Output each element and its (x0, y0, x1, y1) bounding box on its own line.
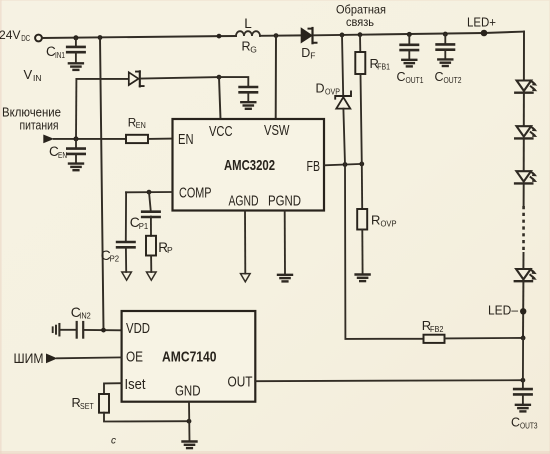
wire D4 to LED- node (522, 282, 524, 339)
diode D (schottky, EN to VCC) (129, 71, 144, 86)
junction rail/COUT2 (443, 32, 448, 37)
label 24VDC (0, 28, 30, 43)
wire top rail from terminal to inductor L (42, 36, 236, 38)
svg-text:EN: EN (58, 150, 67, 160)
capacitor CIN1 (67, 38, 84, 63)
LED D4 (515, 269, 537, 281)
svg-text:VCC: VCC (209, 123, 233, 140)
label Обратная связь (336, 3, 386, 30)
junction GND net (187, 419, 192, 424)
wire diode D to VCC node (141, 77, 220, 79)
wire CP1 to RP (150, 217, 152, 236)
node 24VDC input terminal (35, 35, 42, 42)
svg-text:F: F (310, 51, 315, 61)
pin label PGND (268, 193, 301, 210)
junction rail/DOVP branch (340, 33, 345, 38)
svg-text:OE: OE (126, 349, 143, 366)
label VIN (24, 67, 42, 83)
svg-text:VDD: VDD (126, 320, 150, 337)
svg-text:V: V (24, 67, 33, 82)
wire AGND pin (244, 211, 246, 274)
label AMC3202 (224, 157, 275, 174)
wire RP to ground (150, 256, 152, 273)
label L (244, 16, 252, 31)
label REN (128, 115, 146, 130)
label ROVP (371, 213, 397, 229)
junction RFB2/LED- column (521, 336, 526, 341)
wire VCC node to bypass cap (219, 77, 248, 87)
pin label COMP (179, 185, 212, 202)
wire dashed continuation of LED string (522, 206, 525, 253)
node power-on input arrow (43, 135, 54, 144)
junction OUT/COUT3 (521, 378, 526, 383)
resistor RFB2 (424, 335, 445, 343)
svg-text:питания: питания (20, 118, 59, 133)
pin label OUT (228, 374, 253, 391)
junction rail/VCC branch (217, 34, 222, 39)
wire DOVP branch upper (342, 35, 343, 96)
wire between D2 D3 (523, 139, 525, 171)
svg-text:OUT1: OUT1 (406, 75, 424, 85)
stray mark c (111, 436, 116, 447)
pin label FB (307, 158, 321, 175)
wire PGND pin (284, 211, 286, 275)
svg-text:LED–: LED– (488, 303, 519, 318)
label CIN1 (46, 44, 65, 60)
junction rail/VSW branch (274, 33, 279, 38)
wire VSW vertical into IC (275, 36, 277, 119)
node LED- dot (520, 308, 526, 314)
svg-text:R: R (371, 213, 380, 228)
capacitor CP1 (142, 212, 159, 217)
inductor L (236, 31, 260, 36)
svg-text:C: C (397, 70, 406, 84)
svg-text:OUT2: OUT2 (444, 75, 462, 85)
svg-text:D: D (301, 46, 310, 60)
label RP (158, 240, 173, 255)
capacitor VCC bypass (240, 87, 257, 102)
wire CP1 branch (149, 192, 151, 211)
op IC U1 AMC3202 box (173, 119, 325, 211)
wire ROVP to ground (361, 230, 363, 275)
svg-text:AMC7140: AMC7140 (162, 349, 217, 366)
svg-text:Iset: Iset (125, 376, 147, 393)
svg-text:OUT3: OUT3 (520, 421, 538, 431)
svg-text:OUT: OUT (228, 374, 253, 391)
wire PWM to OE pin (57, 356, 122, 359)
wire arrow to REN (54, 138, 126, 140)
wire LED chain top (523, 32, 525, 81)
ground for ROVP (356, 275, 370, 282)
svg-text:C: C (435, 70, 444, 84)
svg-text:IN: IN (33, 73, 42, 83)
node LED+ junction dot (481, 30, 488, 37)
resistor REN (126, 135, 148, 143)
wire RFB2 row from FB vertical (345, 165, 424, 339)
capacitor CIN2 (77, 322, 84, 338)
resistor RFB1 (355, 52, 365, 74)
pin label OE (126, 349, 143, 366)
wire DOVP to FB node (343, 109, 345, 165)
ground AGND (241, 274, 251, 282)
ground small sideways for CIN2 (53, 324, 60, 335)
ground for COUT3 (516, 405, 530, 412)
wire GND pin down (188, 402, 191, 442)
wire between D1 D2 (523, 93, 525, 126)
diode DOVP (zener) (335, 92, 351, 109)
label AMC7140 (162, 349, 217, 366)
label LED- (488, 303, 519, 318)
junction FB/DOVP (343, 162, 348, 167)
node PWM input arrow (46, 354, 57, 364)
IC U2 AMC7140 box (122, 311, 256, 402)
ground for CP2 (122, 272, 132, 280)
label COUT3 (511, 416, 538, 431)
svg-text:ШИМ: ШИМ (14, 350, 44, 366)
LED D1 (515, 81, 537, 93)
label CIN2 (71, 305, 91, 320)
svg-text:COMP: COMP (179, 185, 212, 202)
label Включение питания (2, 105, 61, 133)
label CP1 (130, 215, 149, 231)
svg-text:AGND: AGND (229, 193, 259, 210)
wire RFB2 to LED- column (445, 337, 524, 340)
wire COMP to network (126, 191, 173, 193)
LED D2 (515, 126, 537, 138)
wire RSET to GND net (104, 413, 189, 422)
svg-text:AMC3202: AMC3202 (224, 157, 275, 174)
wire from riser to diode D (76, 78, 128, 80)
svg-text:R: R (242, 40, 251, 54)
svg-text:L: L (244, 16, 252, 31)
wire LED- column to OUT row (522, 338, 524, 380)
wire FB node down to ROVP (361, 164, 363, 209)
wire D3 to dashed (523, 184, 525, 206)
svg-text:P: P (167, 245, 173, 255)
wire dashed to D4 (522, 253, 524, 269)
svg-text:PGND: PGND (268, 193, 301, 210)
svg-text:EN: EN (178, 131, 194, 148)
capacitor COUT2 (437, 34, 454, 59)
ground for CEN (69, 164, 83, 171)
pin label GND (175, 383, 201, 400)
capacitor CP2 (117, 242, 134, 272)
label ШИМ (14, 350, 44, 366)
capacitor COUT3 (514, 380, 531, 404)
junction rail/COUT1 (407, 32, 412, 37)
diode DF (schottky) (302, 28, 317, 43)
svg-text:24V: 24V (0, 28, 21, 42)
svg-text:P2: P2 (110, 254, 120, 264)
ground for VCC bypass cap (241, 102, 255, 109)
wire REN to EN pin (148, 138, 173, 140)
label RG (242, 40, 257, 55)
svg-text:P1: P1 (139, 221, 149, 231)
junction COMP/CP1 (147, 190, 152, 195)
svg-text:GND: GND (175, 383, 201, 400)
label LED+ (467, 15, 496, 30)
resistor RSET (99, 394, 109, 413)
capacitor COUT1 (401, 34, 418, 59)
ground for COUT1 (402, 60, 416, 67)
svg-text:G: G (250, 45, 257, 55)
pin label EN (178, 131, 194, 148)
pin label VSW (264, 122, 290, 139)
svg-text:LED+: LED+ (467, 15, 496, 30)
svg-text:FB: FB (307, 158, 321, 175)
LED D3 (515, 171, 537, 183)
ground PGND (278, 275, 292, 282)
ground for RP (147, 272, 157, 280)
junction rail/RFB1 branch (358, 32, 363, 37)
junction rail/vertical to VDD (98, 35, 103, 40)
svg-text:DC: DC (21, 34, 30, 43)
label CEN (49, 144, 67, 160)
resistor ROVP (357, 209, 367, 230)
wire vertical from rail to VDD junction (100, 38, 104, 331)
wire rail from L to diode DF (260, 34, 302, 36)
svg-text:OVP: OVP (325, 87, 340, 97)
junction FB/RFB1/ROVP (359, 162, 364, 167)
wire EN-node vertical riser (75, 79, 77, 139)
wire CIN2 to VDD pin (84, 329, 122, 331)
resistor RP (146, 236, 156, 256)
capacitor CEN (67, 139, 84, 164)
junction VCC node (217, 75, 222, 80)
label RFB1 (370, 56, 391, 71)
wire small ground to CIN2 (59, 329, 76, 331)
label CP2 (101, 248, 120, 264)
wire VCC vertical into IC (219, 77, 221, 119)
junction VDD/vertical (101, 328, 106, 333)
svg-text:IN1: IN1 (55, 50, 65, 60)
wire OUT to output node (255, 380, 523, 381)
pin label AGND (229, 193, 259, 210)
label COUT2 (435, 70, 462, 85)
svg-text:c: c (111, 436, 116, 447)
label RSET (72, 395, 94, 411)
svg-text:SET: SET (80, 401, 94, 411)
svg-text:D: D (316, 82, 325, 96)
ground for COUT2 (438, 59, 452, 66)
junction rail/CIN1 (73, 35, 78, 40)
wire Iset to RSET (104, 383, 122, 394)
svg-text:FB2: FB2 (430, 324, 444, 334)
pin label Iset (125, 376, 147, 393)
svg-text:C: C (511, 416, 520, 430)
label DOVP (316, 82, 341, 97)
wire down to CP2 (125, 192, 127, 242)
svg-text:связь: связь (346, 15, 374, 29)
label RFB2 (422, 318, 444, 334)
wire rail from DF to LED chain corner (315, 32, 525, 36)
label COUT1 (397, 70, 424, 85)
wire RFB1 branch upper (359, 35, 361, 52)
svg-text:OVP: OVP (381, 219, 397, 229)
svg-text:VSW: VSW (264, 122, 290, 139)
svg-text:FB1: FB1 (377, 62, 390, 72)
ground for GND pin (183, 442, 197, 449)
ground for CIN1 (69, 63, 83, 70)
label DF (301, 46, 315, 61)
wire RFB1 to FB node (361, 74, 362, 164)
pin label VDD (126, 320, 150, 337)
pin label VCC (209, 123, 233, 140)
svg-text:IN2: IN2 (79, 310, 91, 320)
svg-text:EN: EN (136, 121, 146, 130)
junction CEN node (74, 136, 79, 141)
wire FB pin to divider (325, 164, 362, 165)
